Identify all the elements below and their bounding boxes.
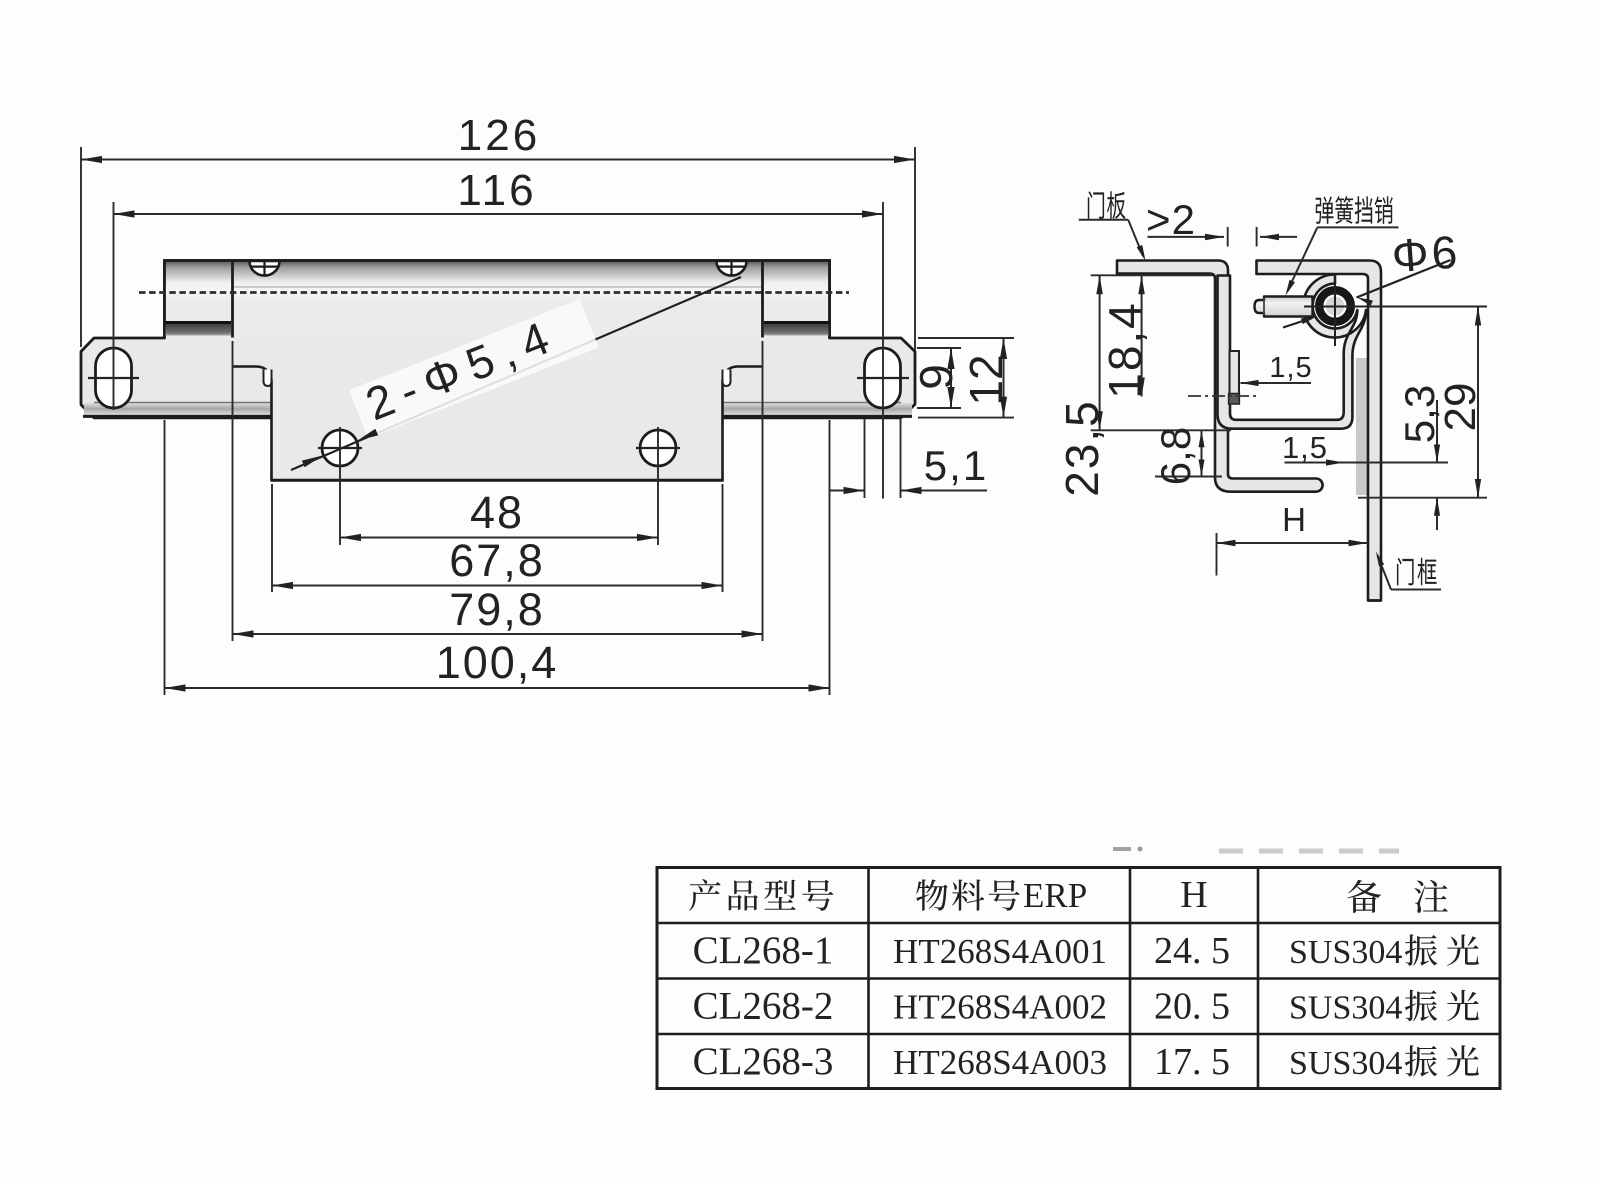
svg-text:79,8: 79,8	[449, 584, 545, 635]
door frame bottom cap	[1368, 599, 1381, 602]
svg-text:CL268-1: CL268-1	[693, 929, 834, 972]
svg-text:HT268S4A003: HT268S4A003	[893, 1043, 1107, 1082]
left knuckle shading	[165, 321, 231, 324]
dim H	[1216, 533, 1218, 576]
screw hole left 5.4	[322, 430, 358, 466]
dashed centerline	[139, 291, 849, 294]
dim 5,1	[864, 419, 866, 498]
pin centerlines	[1334, 275, 1336, 346]
svg-text:6,8: 6,8	[1152, 427, 1199, 485]
knuckle divider right	[761, 261, 764, 338]
table header row	[689, 879, 833, 911]
shadow strip between door wing and frame wing	[1356, 358, 1368, 495]
svg-text:ERP: ERP	[1023, 876, 1087, 915]
thin highlight line above centerline	[234, 286, 761, 288]
dim 5,3	[1436, 400, 1438, 463]
svg-text:H: H	[1282, 501, 1306, 538]
svg-text:23,5: 23,5	[1056, 399, 1108, 497]
svg-text:HT268S4A002: HT268S4A002	[893, 987, 1107, 1026]
dim 100,4	[164, 420, 166, 695]
label tan huang dang xiao (spring stop pin)	[1316, 196, 1393, 224]
dash-dot centerline at catch pin level	[1188, 395, 1258, 397]
plate hook notch right	[723, 370, 731, 387]
svg-text:SUS304: SUS304	[1289, 989, 1402, 1026]
right tab oval slot	[865, 348, 901, 408]
hinge pin phi6	[1320, 291, 1351, 322]
dim 29	[1477, 307, 1479, 499]
mounting plate	[233, 367, 762, 481]
dim 12	[918, 337, 1014, 339]
right knuckle shading	[764, 321, 829, 324]
svg-text:H: H	[1180, 874, 1207, 916]
dim >2	[1227, 227, 1229, 247]
svg-text:9: 9	[910, 364, 962, 390]
left tab oval slot	[96, 348, 132, 408]
hinge door-wing section (curl around pin, Z flange)	[1218, 274, 1367, 428]
svg-text:48: 48	[470, 487, 524, 538]
label men ban (door panel)	[1088, 191, 1126, 219]
plate hook notch left	[264, 370, 272, 387]
svg-text:CL268-3: CL268-3	[693, 1040, 834, 1083]
svg-text:CL268-2: CL268-2	[693, 984, 834, 1027]
dim 48	[339, 427, 341, 545]
svg-text:67,8: 67,8	[449, 535, 545, 586]
spring stop pin cylinder	[1255, 297, 1313, 317]
svg-text:100,4: 100,4	[436, 637, 559, 688]
svg-text:Φ6: Φ6	[1390, 225, 1462, 282]
svg-text:29: 29	[1436, 383, 1485, 432]
svg-text:17. 5: 17. 5	[1154, 1041, 1230, 1083]
svg-text:>2: >2	[1146, 196, 1196, 243]
svg-text:116: 116	[457, 166, 536, 215]
dim 116	[113, 202, 115, 410]
spec table	[656, 866, 1502, 869]
tick wing end 1,5 level	[1365, 462, 1384, 464]
screw head left on bar	[250, 261, 280, 276]
hinge leaf and tabs silhouette	[81, 261, 915, 418]
screw hole right 5.4	[640, 430, 676, 466]
extension line y=497.7	[1358, 497, 1487, 499]
dim 9	[917, 347, 961, 349]
svg-text:SUS304: SUS304	[1289, 1045, 1402, 1082]
svg-text:1,5: 1,5	[1282, 430, 1328, 465]
dim 1,5 upper	[1241, 382, 1312, 384]
dim 23,5	[1091, 274, 1213, 276]
leaf bottom rolled-edge band	[84, 403, 912, 416]
screw head right on bar	[717, 261, 747, 276]
svg-text:24. 5: 24. 5	[1154, 930, 1230, 972]
label men kuang (door frame)	[1397, 558, 1437, 586]
svg-text:12: 12	[960, 354, 1012, 405]
frame wing top flange + vertical, continues as door frame sheet	[1368, 276, 1381, 599]
svg-text:1,5: 1,5	[1269, 352, 1312, 384]
svg-text:18,4: 18,4	[1099, 301, 1151, 399]
dim 67,8	[271, 484, 273, 592]
svg-text:SUS304: SUS304	[1289, 934, 1402, 971]
dim 1,5 lower	[1285, 462, 1449, 464]
svg-text:HT268S4A001: HT268S4A001	[893, 932, 1107, 971]
svg-text:126: 126	[458, 111, 540, 160]
leader 2-phi5,4	[291, 277, 741, 470]
dim 18,4	[1141, 275, 1143, 396]
small catch plate on panel	[1230, 351, 1240, 394]
knuckle divider left	[231, 261, 234, 338]
svg-text:20. 5: 20. 5	[1154, 985, 1230, 1027]
dim 79,8	[232, 341, 234, 641]
door panel section (men ban)	[1117, 261, 1323, 492]
top bar with gradient	[165, 261, 830, 338]
svg-text:5,1: 5,1	[924, 442, 988, 489]
faint artifact dashes above table	[1113, 847, 1131, 851]
dim 6,8	[1155, 476, 1222, 478]
dim 126	[80, 147, 82, 347]
